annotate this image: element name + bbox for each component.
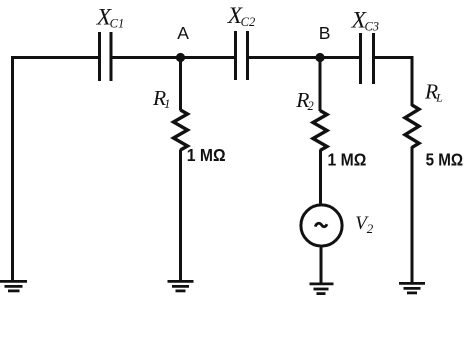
wire RL to ground (411, 147, 414, 284)
capacitor XC1 (100, 32, 112, 81)
wire top rail segment A (111, 56, 236, 59)
capacitor XC3 (361, 33, 374, 84)
svg-text:A: A (177, 23, 189, 43)
wire right rail down (411, 56, 414, 106)
wire top rail right segment (374, 56, 414, 59)
svg-text:V2: V2 (355, 213, 374, 236)
wire V2 to ground (320, 248, 323, 284)
wire top rail segment B (248, 56, 361, 59)
ground RL (399, 283, 425, 293)
svg-text:B: B (319, 23, 331, 43)
svg-text:XC1: XC1 (96, 5, 124, 31)
capacitor XC2 (236, 31, 248, 80)
resistor R2 (313, 111, 327, 151)
svg-text:RL: RL (424, 79, 443, 104)
node A (176, 53, 185, 62)
wire top rail left segment (11, 56, 100, 59)
wire node A to R1 (179, 58, 182, 111)
resistor RL (405, 105, 419, 147)
resistor R1 (174, 110, 188, 150)
svg-text:XC2: XC2 (227, 3, 255, 29)
wire left vertical (11, 56, 14, 281)
wire R1 to ground (179, 150, 182, 282)
wire node B to R2 (319, 58, 322, 112)
svg-text:XC3: XC3 (351, 7, 379, 33)
ground V2 (310, 284, 334, 294)
ground left (0, 281, 27, 291)
svg-text:R1: R1 (152, 86, 170, 111)
ground R1 (168, 281, 194, 291)
node B (315, 53, 324, 62)
svg-text:5 MΩ: 5 MΩ (426, 149, 464, 169)
svg-text:1 MΩ: 1 MΩ (187, 145, 226, 165)
source V2 (301, 205, 342, 246)
svg-text:1 MΩ: 1 MΩ (328, 150, 367, 170)
svg-text:R2: R2 (295, 88, 313, 113)
wire R2 to V2 (319, 150, 322, 206)
